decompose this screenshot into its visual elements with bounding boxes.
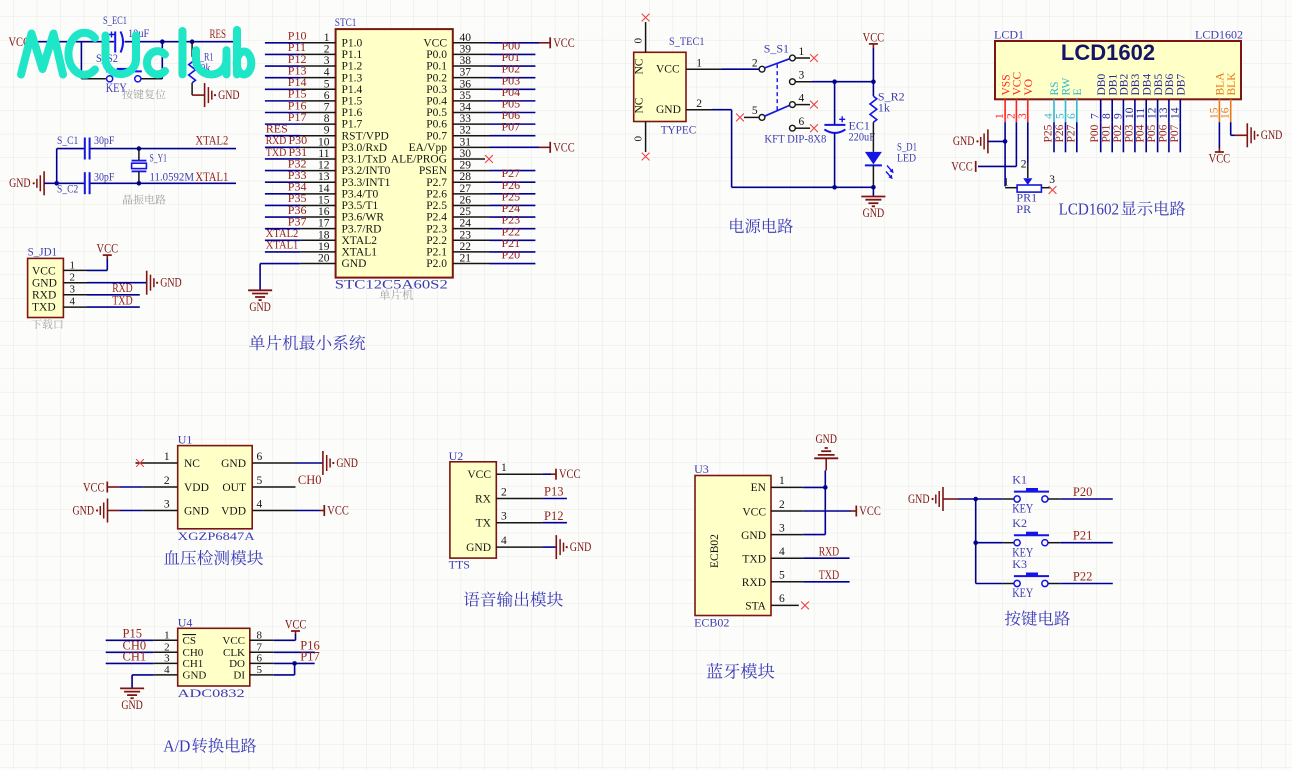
section title 蓝牙模块 <box>707 663 723 678</box>
svg-text:P17: P17 <box>288 110 307 124</box>
connector S_TEC1 body <box>634 34 705 137</box>
U4 pin3 wire CH1 <box>106 650 178 664</box>
U4 pin6 wire P17 <box>250 650 320 664</box>
svg-text:10: 10 <box>318 136 330 148</box>
svg-text:VDD: VDD <box>184 482 209 494</box>
svg-text:6: 6 <box>779 593 785 605</box>
svg-text:CH0: CH0 <box>298 473 322 487</box>
U3 pin6 STA no-erc <box>771 602 809 610</box>
svg-text:P02: P02 <box>1112 124 1124 142</box>
wire LCD net P26 <box>1054 122 1066 152</box>
svg-text:32: 32 <box>460 125 472 137</box>
wire STC1 pin 37 net P02 <box>453 62 535 78</box>
wire S2 branch left vertical <box>81 42 105 79</box>
power port VCC (LCD backlight) <box>1209 152 1231 166</box>
svg-text:TTS: TTS <box>449 558 470 572</box>
svg-text:P2.6: P2.6 <box>426 188 447 200</box>
svg-text:GND: GND <box>741 530 766 542</box>
svg-text:P0.2: P0.2 <box>426 72 447 84</box>
svg-text:GND: GND <box>656 104 681 116</box>
svg-text:CH1: CH1 <box>183 658 204 670</box>
svg-text:P26: P26 <box>1054 124 1066 142</box>
svg-text:TX: TX <box>476 518 492 530</box>
wire LCD net P27 <box>1065 122 1077 152</box>
svg-text:39: 39 <box>460 43 472 55</box>
wire U3 EN junction down to GND pin <box>824 487 826 534</box>
svg-text:VCC: VCC <box>327 503 349 517</box>
wire U3 pin5 RXD net TXD <box>771 568 850 582</box>
wire STC1 pin 8 net P17 <box>265 110 336 124</box>
svg-text:6: 6 <box>799 116 805 128</box>
grey comment 单片机 <box>379 289 390 300</box>
svg-text:TXD: TXD <box>742 554 766 566</box>
svg-text:DB1: DB1 <box>1107 74 1119 96</box>
svg-text:VCC: VCC <box>222 635 245 647</box>
svg-text:ECB02: ECB02 <box>709 534 721 568</box>
wire LCD net P00 <box>1089 122 1101 152</box>
S_TEC1 bottom stub with 0 and no-erc <box>633 122 650 161</box>
svg-text:GND: GND <box>336 456 358 470</box>
wire STC1 pin 17 net P37 <box>265 214 336 228</box>
svg-text:ADC0832: ADC0832 <box>178 686 245 700</box>
wire STC1 pin 36 net P03 <box>453 73 535 89</box>
wire STC1 pin 35 net P04 <box>453 85 535 101</box>
wire STC1 pin 16 net P36 <box>265 203 336 217</box>
svg-text:P2.5: P2.5 <box>426 200 447 212</box>
svg-text:P22: P22 <box>1073 569 1092 583</box>
svg-text:5: 5 <box>257 664 263 676</box>
svg-text:XTAL2: XTAL2 <box>342 235 378 247</box>
svg-text:P3.6/WR: P3.6/WR <box>342 212 385 224</box>
svg-text:TXD: TXD <box>819 568 840 582</box>
svg-text:P01: P01 <box>1101 124 1113 142</box>
svg-text:3: 3 <box>501 511 507 523</box>
svg-text:6: 6 <box>257 451 263 463</box>
U4 pin7 wire P16 <box>250 639 320 653</box>
svg-text:S_Y1: S_Y1 <box>150 151 167 165</box>
U4 pin numbers <box>164 629 262 676</box>
wire STC1 pin 5 net P14 <box>265 75 336 89</box>
switch pin4 stub no-erc <box>795 101 818 109</box>
voice module U2 TTS body <box>449 449 497 572</box>
svg-text:23: 23 <box>460 229 472 241</box>
svg-text:U4: U4 <box>178 615 193 629</box>
grey comment 按键复位 <box>122 89 132 99</box>
svg-text:29: 29 <box>460 160 472 172</box>
power port VCC (LCD) <box>951 159 976 173</box>
svg-text:2: 2 <box>164 475 170 487</box>
svg-text:P12: P12 <box>544 509 563 523</box>
U2 pin2 wire P13 <box>496 485 567 499</box>
svg-text:14: 14 <box>318 183 330 195</box>
svg-text:GND: GND <box>183 669 207 681</box>
node keys K2 junction <box>973 540 978 545</box>
wire LCD net P06 <box>1157 122 1169 152</box>
svg-text:P1.1: P1.1 <box>342 49 363 61</box>
wire STC1 pin 20 GND <box>260 264 336 290</box>
svg-text:VO: VO <box>1023 79 1035 96</box>
wire C1 to crystal node <box>90 148 138 150</box>
LCD1 pin stubs <box>1005 99 1231 122</box>
crystal S_Y1 11.0592M <box>132 149 195 184</box>
svg-text:P3.1/TxD: P3.1/TxD <box>342 154 387 166</box>
svg-text:RS: RS <box>1049 81 1061 95</box>
svg-text:GND: GND <box>863 206 885 220</box>
svg-text:40: 40 <box>460 32 472 44</box>
svg-text:S_TEC1: S_TEC1 <box>669 34 705 48</box>
svg-text:VCC: VCC <box>559 467 581 481</box>
svg-text:RXD: RXD <box>742 577 766 589</box>
LCD1 pin numbers 1-16 <box>994 107 1232 119</box>
svg-text:P1.6: P1.6 <box>342 107 363 119</box>
svg-text:2: 2 <box>1005 113 1017 119</box>
svg-text:VCC: VCC <box>467 469 491 481</box>
svg-text:STC12C5A60S2: STC12C5A60S2 <box>335 276 448 291</box>
ground (power circuit) <box>861 187 885 220</box>
svg-text:P21: P21 <box>1073 529 1092 543</box>
svg-text:VCC: VCC <box>1012 72 1024 96</box>
svg-text:4: 4 <box>1043 113 1055 119</box>
svg-text:37: 37 <box>460 67 472 79</box>
svg-text:4: 4 <box>70 296 76 308</box>
wire LCD net P04 <box>1135 122 1147 152</box>
wire LCD net P07 <box>1169 122 1181 152</box>
svg-text:NC: NC <box>634 58 646 74</box>
wire STC1 pin 13 net P33 <box>265 168 336 182</box>
svg-text:P2.7: P2.7 <box>426 177 447 189</box>
grey comment 晶振电路 <box>123 194 132 204</box>
svg-text:3: 3 <box>1049 174 1055 186</box>
svg-text:8: 8 <box>1101 113 1113 119</box>
svg-text:3: 3 <box>324 55 330 67</box>
svg-text:GND: GND <box>73 503 95 517</box>
svg-text:0: 0 <box>633 38 645 44</box>
U1 pin6 wire to GND <box>252 451 358 475</box>
svg-text:S_EC1: S_EC1 <box>103 13 127 27</box>
wire STC1 pin 40 VCC <box>453 42 550 44</box>
node U3 EN junction <box>823 485 828 490</box>
svg-text:DB7: DB7 <box>1176 74 1188 96</box>
svg-text:16: 16 <box>318 206 330 218</box>
svg-text:S_C1: S_C1 <box>57 133 78 147</box>
MCU U-STC1 body <box>335 15 453 292</box>
svg-text:2: 2 <box>779 499 785 511</box>
svg-text:P07: P07 <box>1169 124 1181 142</box>
svg-text:21: 21 <box>460 253 472 265</box>
svg-text:12: 12 <box>318 160 330 172</box>
svg-text:P04: P04 <box>1135 124 1147 142</box>
svg-text:K2: K2 <box>1012 516 1027 530</box>
svg-text:5: 5 <box>752 105 758 117</box>
svg-text:1k: 1k <box>878 101 890 115</box>
svg-text:GND: GND <box>160 276 182 290</box>
svg-text:4: 4 <box>257 498 263 510</box>
svg-text:U2: U2 <box>449 449 464 463</box>
svg-text:3: 3 <box>1017 113 1029 119</box>
U4 pin4 wire to GND <box>132 675 178 688</box>
wire LCD net P25 <box>1043 122 1055 152</box>
ground (crystal) <box>9 171 44 195</box>
svg-text:NC: NC <box>184 458 200 470</box>
svg-text:GND: GND <box>953 134 975 148</box>
svg-text:P3.3/INT1: P3.3/INT1 <box>342 177 391 189</box>
svg-text:P1.0: P1.0 <box>342 37 363 49</box>
potentiometer PR1 <box>1003 159 1055 217</box>
ground (keys) <box>908 487 976 511</box>
power port VCC (U3) <box>856 504 881 518</box>
power port VCC (U1) <box>83 480 107 494</box>
svg-text:VCC: VCC <box>423 37 447 49</box>
power port VCC (U1 pin4) <box>324 503 349 517</box>
wire LCD pin15 BLA to VCC <box>1218 122 1220 152</box>
wire S_TEC1 pin1 to switch <box>686 68 759 70</box>
svg-text:31: 31 <box>460 136 472 148</box>
ground (U3 top, inverted earth) <box>814 432 838 471</box>
node bottom rail GND junction <box>871 185 876 190</box>
svg-text:KEY: KEY <box>1012 585 1033 600</box>
svg-text:CH0: CH0 <box>183 647 204 659</box>
svg-text:6: 6 <box>1066 113 1078 119</box>
svg-text:RX: RX <box>475 494 492 506</box>
U4 pin8 wire to VCC <box>250 631 296 640</box>
capacitor S_EC1 10uF electrolytic <box>103 13 150 53</box>
svg-text:24: 24 <box>460 218 472 230</box>
svg-text:P2.0: P2.0 <box>426 258 447 270</box>
svg-text:15: 15 <box>318 194 330 206</box>
svg-text:LED: LED <box>897 151 916 165</box>
svg-text:P1.7: P1.7 <box>342 119 363 131</box>
power port VCC (U4) <box>285 618 307 632</box>
capacitor EC1 220uF <box>824 82 875 188</box>
svg-text:GND: GND <box>1261 128 1283 142</box>
svg-text:VDD: VDD <box>221 505 246 517</box>
svg-text:PSEN: PSEN <box>419 165 448 177</box>
svg-text:P2.1: P2.1 <box>426 247 447 259</box>
svg-text:LCD1602: LCD1602 <box>1061 40 1155 65</box>
net label XTAL1 wire <box>139 170 236 184</box>
power port VCC (power circuit) <box>863 31 885 49</box>
wire STC1 pin 4 net P13 <box>265 63 336 77</box>
switch pin5 stub no-erc <box>736 114 759 122</box>
svg-text:VCC: VCC <box>863 31 885 45</box>
svg-text:1: 1 <box>164 629 170 641</box>
wire U3 pin2 VCC <box>771 510 856 512</box>
U1 pin5 wire CH0 <box>252 473 321 487</box>
svg-text:XTAL1: XTAL1 <box>195 170 228 184</box>
svg-text:14: 14 <box>1169 107 1181 119</box>
svg-text:P27: P27 <box>1065 124 1077 142</box>
svg-text:P0.4: P0.4 <box>426 95 447 107</box>
wire LCD net P05 <box>1146 122 1158 152</box>
power port VCC (STC1 pin31) <box>550 140 575 154</box>
svg-text:2: 2 <box>70 271 76 283</box>
wire STC1 pin 6 net P15 <box>265 87 336 101</box>
svg-text:P0.7: P0.7 <box>426 130 447 142</box>
svg-text:VCC: VCC <box>1209 152 1231 166</box>
svg-text:K1: K1 <box>1012 473 1027 487</box>
svg-text:RST/VPD: RST/VPD <box>342 130 389 142</box>
wire LCD pin3 VO to PR1 wiper <box>1027 122 1029 178</box>
svg-text:S_C2: S_C2 <box>57 181 78 195</box>
svg-text:1: 1 <box>164 451 170 463</box>
node B junction <box>160 39 165 44</box>
S_JD1 pin 2 wire to GND <box>63 282 146 284</box>
svg-text:GND: GND <box>218 88 240 102</box>
S_TEC1 top stub with 0 and no-erc <box>633 14 650 53</box>
LCD LCD1 body <box>994 28 1243 100</box>
svg-text:P3.5/T1: P3.5/T1 <box>342 200 379 212</box>
svg-text:VCC: VCC <box>859 504 881 518</box>
S_JD1 pin numbers <box>70 259 76 307</box>
resistor S_R1 10k <box>189 42 214 95</box>
svg-text:11: 11 <box>1135 108 1147 119</box>
svg-text:2: 2 <box>501 487 507 499</box>
MCUclub logo <box>21 30 251 75</box>
svg-text:TXD: TXD <box>32 302 56 314</box>
svg-text:P1.5: P1.5 <box>342 95 363 107</box>
svg-text:9: 9 <box>1112 113 1124 119</box>
U2 pin numbers <box>501 462 507 547</box>
section title 单片机最小系统 <box>249 335 265 350</box>
svg-text:P00: P00 <box>1089 124 1101 142</box>
svg-text:GND: GND <box>342 258 367 270</box>
section title 按键电路 <box>1005 611 1021 626</box>
node bottom rail EC1 junction <box>832 185 837 190</box>
svg-text:LCD1602: LCD1602 <box>1059 200 1120 219</box>
LED S_D1 <box>865 140 917 188</box>
wire VCC to top rail <box>872 48 874 82</box>
svg-text:P17: P17 <box>300 650 319 664</box>
svg-text:VCC: VCC <box>97 241 119 255</box>
svg-text:VCC: VCC <box>656 64 680 76</box>
svg-text:GND: GND <box>908 492 930 506</box>
svg-text:S_JD1: S_JD1 <box>28 245 57 259</box>
switch S_S1 KFT DIP-8X8 <box>752 42 827 146</box>
svg-text:VCC: VCC <box>742 506 766 518</box>
svg-text:5: 5 <box>257 475 263 487</box>
svg-text:VSS: VSS <box>1000 74 1012 95</box>
node U4 DO/DI junction <box>292 661 297 666</box>
svg-text:NC: NC <box>634 97 646 113</box>
U4 pin5 wire loop to pin6 <box>250 663 295 675</box>
push button K3 <box>976 557 1049 600</box>
wire LCD pin2 VCC <box>978 122 1016 166</box>
power port VCC (download) <box>97 241 119 255</box>
svg-text:P2.3: P2.3 <box>426 223 447 235</box>
wire LCD net P03 <box>1123 122 1135 152</box>
svg-text:2: 2 <box>752 58 758 70</box>
svg-text:XTAL2: XTAL2 <box>195 133 228 147</box>
svg-text:KEY: KEY <box>106 80 127 95</box>
svg-text:1: 1 <box>994 113 1006 119</box>
power port VCC (reset circuit) <box>9 35 34 49</box>
svg-text:7: 7 <box>1090 113 1102 119</box>
wire STC1 pin 12 net P32 <box>265 156 336 170</box>
svg-text:P3.0/RxD: P3.0/RxD <box>342 142 388 154</box>
svg-text:K3: K3 <box>1012 557 1027 571</box>
wire LCD net P01 <box>1101 122 1113 152</box>
svg-text:27: 27 <box>460 183 472 195</box>
U2 pin4 wire to GND <box>496 535 591 559</box>
svg-text:9: 9 <box>324 125 330 137</box>
svg-text:GND: GND <box>221 458 246 470</box>
node XTAL1 junction <box>137 181 142 186</box>
svg-text:CH1: CH1 <box>123 650 147 664</box>
wire STC1 pin 29 PSEN <box>453 170 535 172</box>
svg-text:KEY: KEY <box>1012 501 1033 516</box>
svg-text:P2.4: P2.4 <box>426 212 447 224</box>
svg-text:DI: DI <box>233 669 245 681</box>
svg-text:DB4: DB4 <box>1141 74 1153 96</box>
net label XTAL2 wire <box>139 133 236 148</box>
svg-text:E: E <box>1072 88 1084 95</box>
ground (LCD left) <box>953 129 1005 153</box>
svg-text:RXD: RXD <box>32 289 56 301</box>
svg-text:20: 20 <box>318 253 330 265</box>
wire STC1 pin 14 net P34 <box>265 180 336 194</box>
svg-text:GND: GND <box>466 542 491 554</box>
svg-text:36: 36 <box>460 78 472 90</box>
U3 pin numbers 1-6 <box>779 475 785 605</box>
push button K2 <box>976 516 1049 559</box>
svg-text:34: 34 <box>460 102 472 114</box>
grey comment 下载口 <box>31 319 41 329</box>
svg-text:P1.3: P1.3 <box>342 72 363 84</box>
connector S_JD1 <box>28 245 64 318</box>
svg-text:30pF: 30pF <box>94 170 115 184</box>
node top rail VCC junction <box>871 79 876 84</box>
power port VCC (U2) <box>556 467 581 481</box>
wire STC1 pin 18 net XTAL2 <box>265 226 336 240</box>
wire STC1 pin 30 no-connect <box>453 155 493 163</box>
svg-text:P0.3: P0.3 <box>426 84 447 96</box>
wire STC1 pin 31 VCC <box>453 146 550 148</box>
svg-text:25: 25 <box>460 206 472 218</box>
wire STC1 pin 3 net P12 <box>265 52 336 66</box>
wire S_TEC1 pin2 to bottom rail <box>686 110 835 188</box>
svg-text:VCC: VCC <box>285 618 307 632</box>
svg-text:ECB02: ECB02 <box>694 616 729 630</box>
svg-text:KFT DIP-8X8: KFT DIP-8X8 <box>764 132 826 146</box>
svg-text:GND: GND <box>184 505 209 517</box>
wire STC1 pin 11 net TXD P31 <box>265 145 336 159</box>
wire gnd junction to C2 <box>57 182 84 184</box>
svg-text:11.0592M: 11.0592M <box>150 170 195 184</box>
svg-text:P0.0: P0.0 <box>426 49 447 61</box>
svg-text:30: 30 <box>460 148 472 160</box>
node XTAL2 junction <box>137 146 142 151</box>
STC1 right pin numbers 40-21 <box>460 32 472 265</box>
wire capacitor to node B <box>125 41 163 43</box>
svg-text:3: 3 <box>70 284 76 296</box>
svg-text:3: 3 <box>164 652 170 664</box>
svg-text:17: 17 <box>318 218 330 230</box>
svg-text:RES: RES <box>210 27 227 41</box>
svg-text:6: 6 <box>324 90 330 102</box>
switch pin1 stub no-erc <box>795 54 818 62</box>
svg-text:P07: P07 <box>502 120 521 134</box>
section title 电源电路 <box>730 218 744 233</box>
wire VCC to capacitor S_EC1 <box>34 41 114 43</box>
svg-text:P20: P20 <box>502 248 521 262</box>
svg-text:4: 4 <box>799 93 805 105</box>
node top rail EC1 junction <box>832 79 837 84</box>
svg-text:BLA: BLA <box>1215 72 1227 96</box>
svg-text:12: 12 <box>1147 107 1159 119</box>
wire STC1 pin 9 net RES <box>265 122 336 136</box>
capacitor S_C1 30pF <box>57 133 115 160</box>
svg-text:1: 1 <box>696 58 702 70</box>
